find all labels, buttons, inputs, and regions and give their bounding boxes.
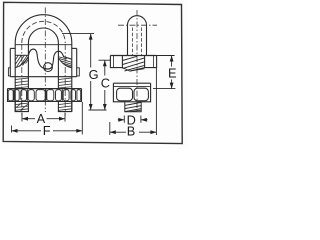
svg-text:F: F xyxy=(43,123,51,138)
saddle right ear tick xyxy=(152,56,154,68)
dim F right extension xyxy=(81,102,83,135)
bolt head semicircle xyxy=(128,16,147,25)
dim E line lower xyxy=(171,80,173,89)
dim G line lower xyxy=(90,81,92,110)
exposed thread right leg xyxy=(59,78,72,88)
dim F left tick xyxy=(11,126,13,133)
dim E bottom extension xyxy=(153,88,175,90)
left bolt centreline xyxy=(21,44,23,116)
right thread hatch xyxy=(58,103,72,110)
border frame xyxy=(3,2,182,143)
svg-text:D: D xyxy=(127,112,136,127)
dim B line left xyxy=(110,131,126,133)
dim D outside arrow right xyxy=(141,119,148,121)
nut row top line xyxy=(8,88,82,90)
dim C line lower xyxy=(104,90,106,110)
U-bolt inner arc xyxy=(28,28,58,43)
U-bolt base chord line xyxy=(15,44,72,46)
shared bottom extension G/C xyxy=(89,109,107,111)
dim F line right xyxy=(53,130,82,132)
dim A right tick xyxy=(64,113,66,122)
thread root dashed right xyxy=(141,28,143,56)
saddle left ear tick xyxy=(113,56,115,68)
saddle base top edge xyxy=(110,55,156,57)
thread root dashed left xyxy=(132,28,134,56)
saddle left ear xyxy=(110,56,122,68)
dim B left tick xyxy=(109,122,111,135)
left hatch pocket top xyxy=(15,54,28,56)
svg-text:G: G xyxy=(89,67,99,82)
dim A line right xyxy=(47,118,66,120)
svg-text:C: C xyxy=(101,76,110,91)
saddle right lug bump xyxy=(77,68,80,76)
side nut right facet pill xyxy=(134,88,148,101)
side thread end below nut xyxy=(124,102,141,112)
saddle body right shoulder xyxy=(72,47,77,49)
dim D outside arrow left xyxy=(118,119,125,121)
saddle right ear xyxy=(145,56,157,68)
nut facet separators xyxy=(14,89,62,100)
right leg inner line xyxy=(57,43,59,89)
saddle centre thread diagonals xyxy=(123,56,145,71)
rope groove dip xyxy=(37,56,54,68)
right hatch lines xyxy=(59,57,72,67)
exposed thread left leg xyxy=(15,78,28,88)
dim G top extension xyxy=(62,33,94,35)
dim C top extension xyxy=(99,59,111,61)
side nut outline xyxy=(113,83,150,102)
side nut chamfer line xyxy=(113,86,150,88)
dim D left tick xyxy=(123,116,125,123)
dim C line upper xyxy=(104,60,106,75)
vertical centre axis xyxy=(44,8,46,113)
left leg inner line xyxy=(27,43,29,89)
head horizontal centreline xyxy=(118,24,157,26)
svg-text:E: E xyxy=(168,66,177,81)
saddle body left side xyxy=(9,48,11,76)
left thread hatch xyxy=(15,103,29,111)
saddle body right side xyxy=(76,48,78,76)
dim B right extension xyxy=(155,68,157,135)
right bolt centreline xyxy=(64,44,66,116)
dim D right tick xyxy=(140,116,142,123)
saddle body bottom edge xyxy=(10,76,76,78)
right leg outer line xyxy=(71,43,73,112)
right hatch pocket bottom curve xyxy=(58,58,71,68)
side thread diagonals xyxy=(125,102,141,111)
dim B line right xyxy=(139,131,156,133)
nut facets xyxy=(8,90,81,101)
right thread end xyxy=(58,101,72,111)
dim E top extension xyxy=(157,55,175,57)
saddle top profile xyxy=(28,49,71,59)
left thread end xyxy=(15,101,29,111)
groove bottom shading xyxy=(43,67,52,69)
left leg outer line xyxy=(14,43,16,112)
side nut left facet pill xyxy=(117,88,133,101)
nut row outline xyxy=(8,89,82,102)
left hatch pocket bottom curve xyxy=(15,57,28,68)
shank left line xyxy=(127,25,129,55)
U-bolt outer arc xyxy=(15,15,72,43)
saddle body left shoulder xyxy=(10,47,15,49)
dim G line upper xyxy=(90,34,92,68)
saddle centre thread bottom xyxy=(122,68,144,72)
dim A line left xyxy=(22,118,35,120)
left hatch lines xyxy=(15,56,28,67)
side nut top line xyxy=(113,82,150,84)
bolt vertical centreline xyxy=(136,10,138,112)
saddle left lug bump xyxy=(8,68,10,76)
dim E line upper xyxy=(171,56,173,67)
U-bolt dashed centre arc xyxy=(22,21,65,43)
dim F line left xyxy=(12,130,42,132)
rope circle xyxy=(44,63,53,72)
dim A left tick xyxy=(21,113,23,122)
shank right line xyxy=(146,25,148,55)
